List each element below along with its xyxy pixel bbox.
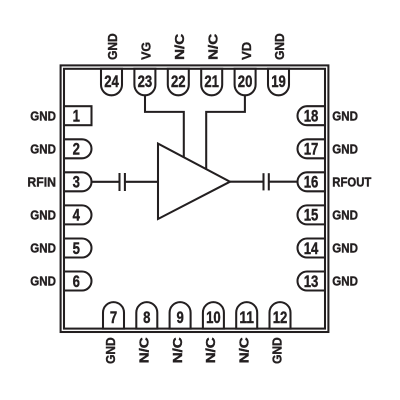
pin 24 <box>101 69 122 96</box>
svg-text:N/C: N/C <box>205 33 220 59</box>
svg-text:GND: GND <box>332 142 358 157</box>
svg-text:15: 15 <box>304 207 319 225</box>
pin 22 <box>168 69 189 96</box>
capacitor C1 <box>120 173 125 191</box>
package outline inner <box>64 69 325 329</box>
pin 14 <box>298 239 326 258</box>
pin 23 <box>134 69 155 96</box>
pin 10 <box>203 302 224 329</box>
svg-text:18: 18 <box>304 108 319 126</box>
pin 15 <box>298 205 326 224</box>
svg-text:16: 16 <box>304 174 319 192</box>
svg-text:GND: GND <box>30 108 56 123</box>
svg-text:10: 10 <box>206 309 221 327</box>
svg-text:3: 3 <box>73 174 80 192</box>
svg-text:GND: GND <box>30 208 56 223</box>
svg-text:GND: GND <box>30 274 56 289</box>
svg-text:14: 14 <box>304 240 319 258</box>
svg-text:GND: GND <box>30 241 56 256</box>
svg-text:8: 8 <box>143 309 150 327</box>
pin 4 <box>64 205 92 224</box>
svg-text:VD: VD <box>239 42 254 60</box>
svg-text:GND: GND <box>105 33 120 60</box>
pin 13 <box>298 272 326 291</box>
package outline outer <box>61 65 329 332</box>
svg-text:N/C: N/C <box>236 337 251 363</box>
svg-text:N/C: N/C <box>170 337 185 363</box>
svg-text:GND: GND <box>30 142 56 157</box>
svg-text:2: 2 <box>73 141 80 159</box>
svg-text:GND: GND <box>332 241 358 256</box>
pin 9 <box>170 302 191 329</box>
pin 18 <box>298 106 326 125</box>
svg-text:17: 17 <box>304 141 319 159</box>
svg-text:11: 11 <box>239 309 254 327</box>
pin 20 <box>235 69 256 96</box>
pin 6 <box>64 272 92 291</box>
wire RFIN pin3 to C1 <box>92 181 120 183</box>
svg-text:GND: GND <box>332 208 358 223</box>
wire C1 to amplifier input <box>125 181 158 183</box>
pin 11 <box>236 302 257 329</box>
op-amp U1 amplifier triangle <box>158 144 230 219</box>
wire C2 to RFOUT pin16 <box>269 181 298 183</box>
pin 21 <box>201 69 222 96</box>
svg-text:N/C: N/C <box>203 337 218 363</box>
pin 7 <box>103 302 124 329</box>
svg-text:12: 12 <box>273 309 288 327</box>
svg-text:GND: GND <box>272 33 287 60</box>
svg-text:GND: GND <box>270 337 285 364</box>
svg-text:GND: GND <box>103 337 118 364</box>
pin 2 <box>64 139 92 158</box>
svg-text:9: 9 <box>176 309 183 327</box>
svg-text:GND: GND <box>332 274 358 289</box>
svg-text:N/C: N/C <box>137 337 152 363</box>
svg-text:GND: GND <box>332 108 358 123</box>
svg-text:22: 22 <box>171 73 186 91</box>
wire VD pin20 to amplifier <box>206 95 245 169</box>
pin 1 <box>64 106 92 125</box>
pin 17 <box>298 139 326 158</box>
svg-text:VG: VG <box>139 42 154 60</box>
wire amplifier output to C2 <box>230 181 264 183</box>
svg-text:13: 13 <box>304 273 319 291</box>
svg-text:21: 21 <box>204 73 219 91</box>
pin 8 <box>136 302 157 329</box>
svg-text:4: 4 <box>73 207 80 225</box>
svg-text:N/C: N/C <box>172 33 187 59</box>
wire VG pin23 to amplifier <box>145 95 184 158</box>
svg-text:6: 6 <box>73 273 80 291</box>
svg-text:7: 7 <box>110 309 117 327</box>
pin 5 <box>64 239 92 258</box>
svg-text:20: 20 <box>238 73 253 91</box>
pin 12 <box>270 302 291 329</box>
pin 16 <box>298 172 326 191</box>
svg-text:RFIN: RFIN <box>27 175 56 190</box>
svg-text:5: 5 <box>73 240 80 258</box>
pin 3 <box>64 172 92 191</box>
svg-text:RFOUT: RFOUT <box>332 175 371 190</box>
svg-text:1: 1 <box>73 108 80 126</box>
svg-text:19: 19 <box>271 73 286 91</box>
svg-text:24: 24 <box>104 73 119 91</box>
svg-text:23: 23 <box>138 73 153 91</box>
capacitor C2 <box>264 173 269 190</box>
pin 19 <box>268 69 289 96</box>
